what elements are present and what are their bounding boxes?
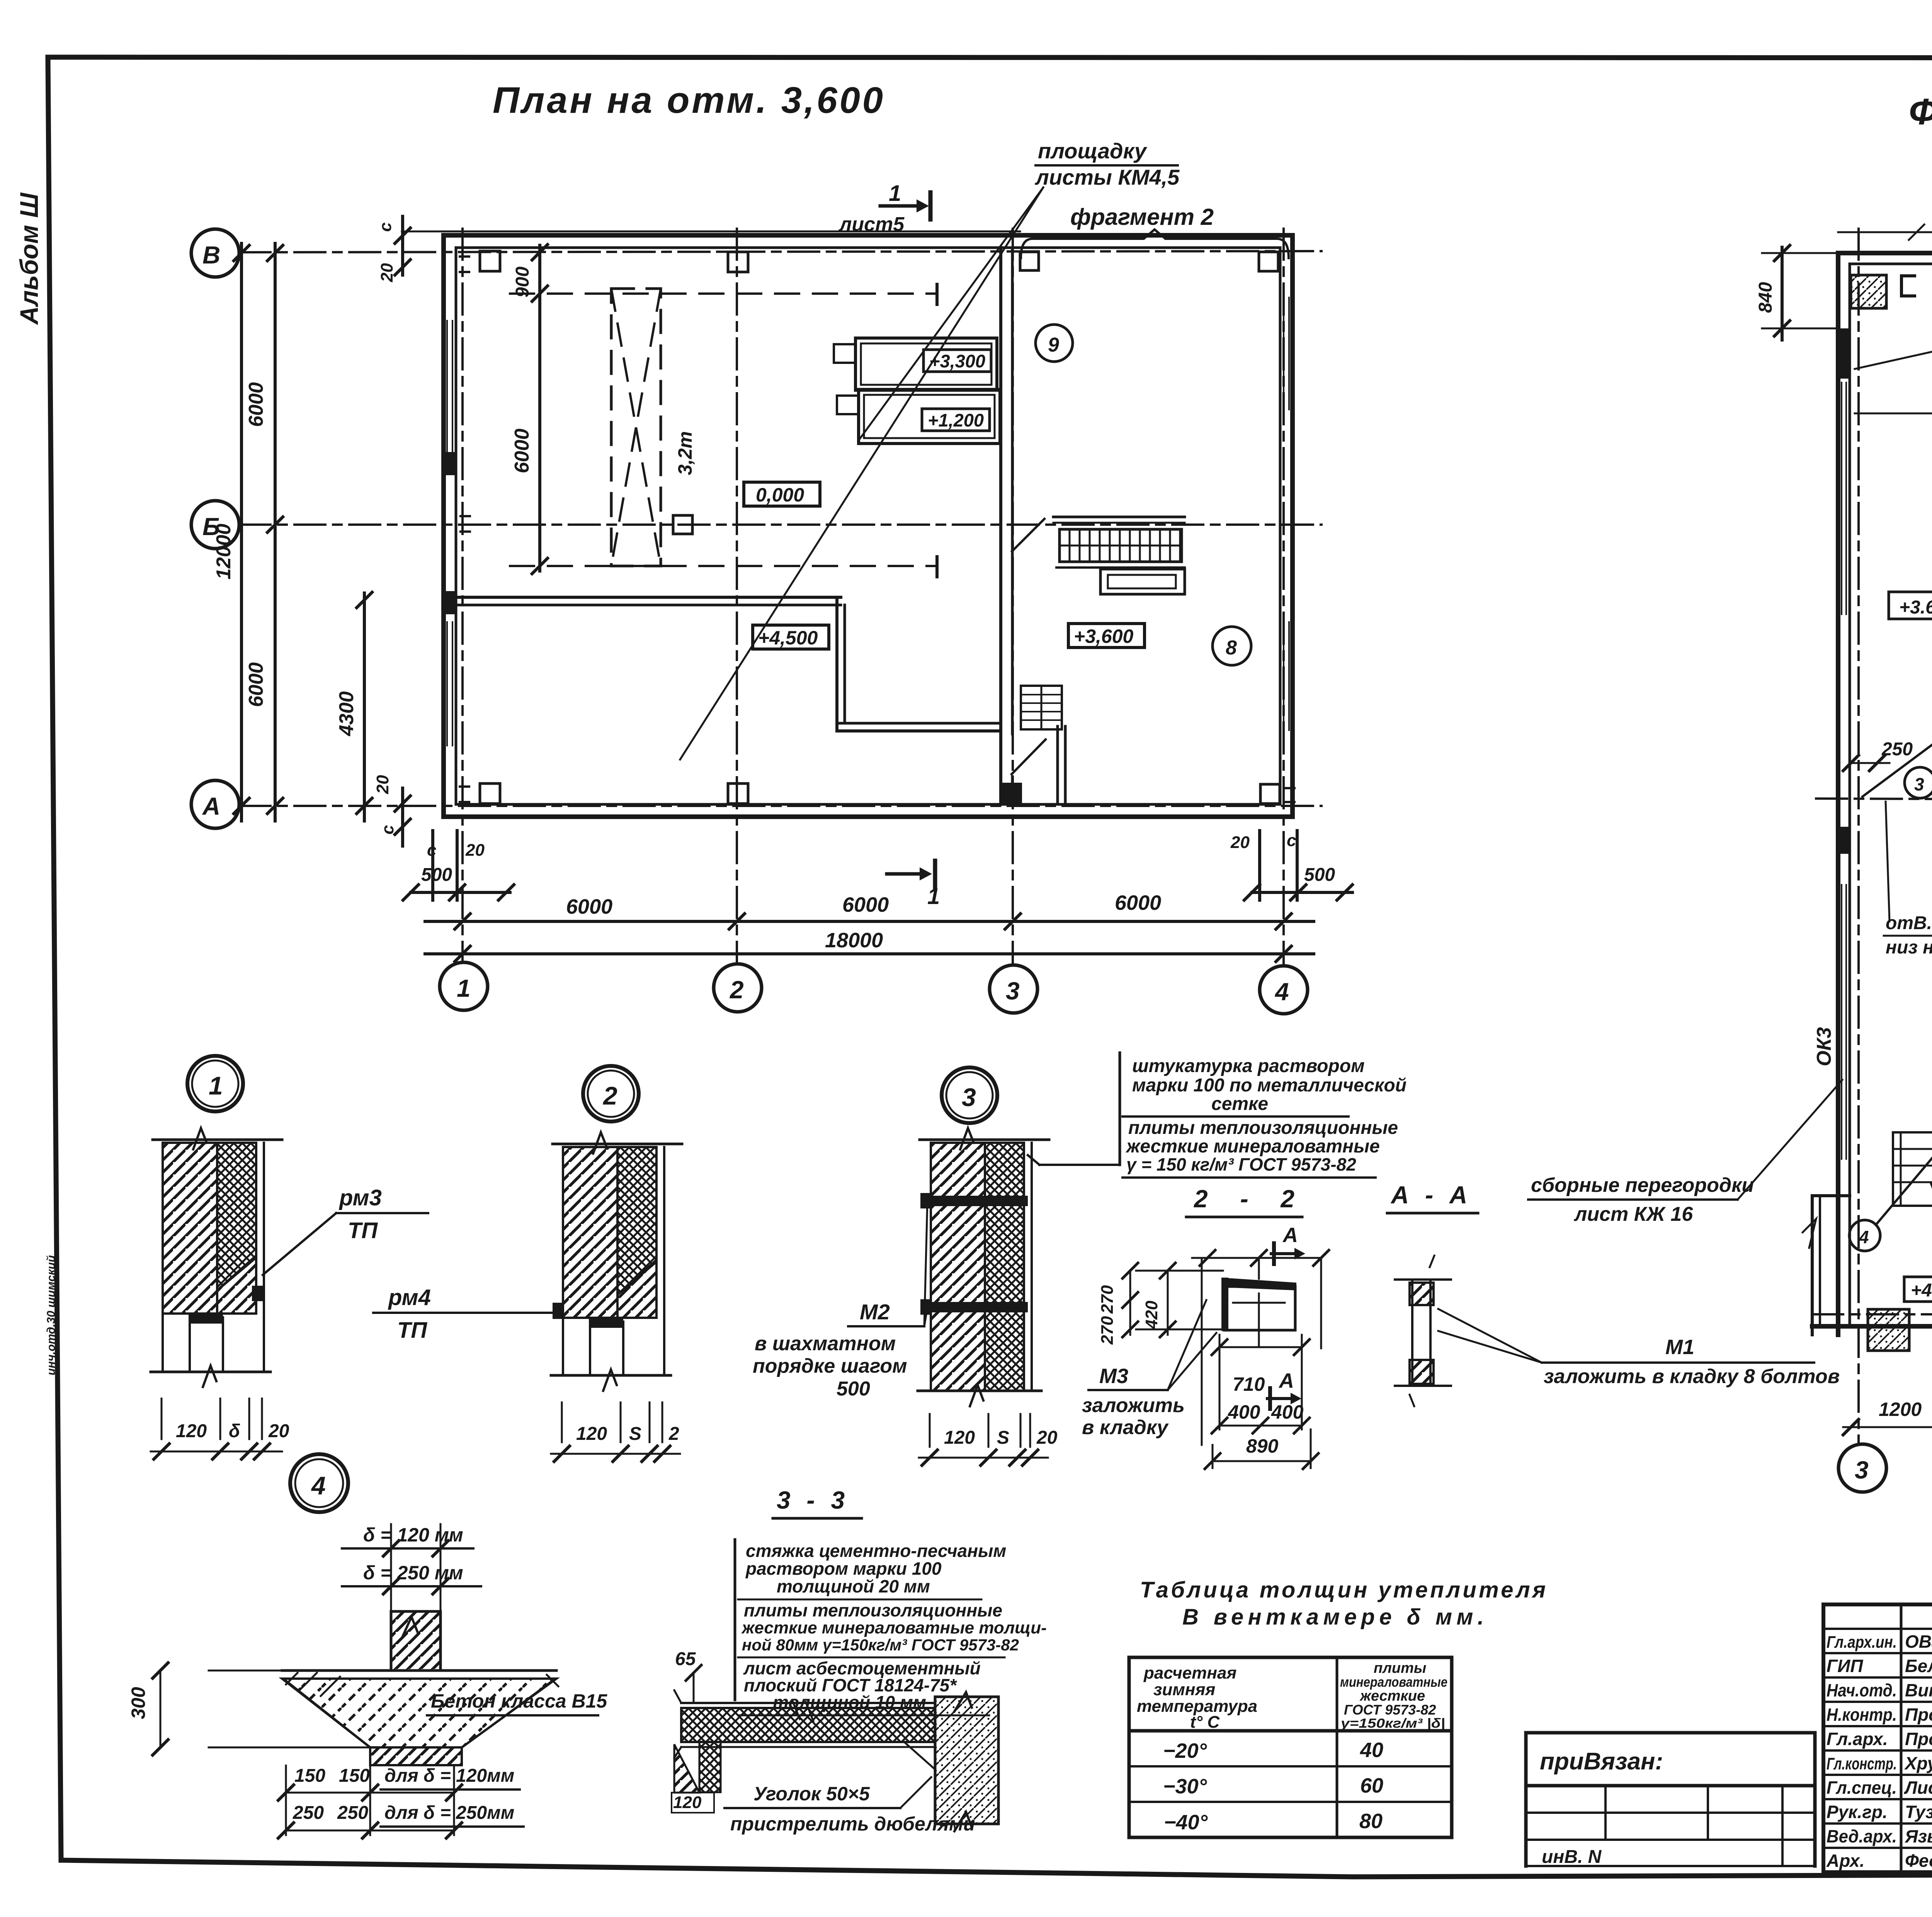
svg-text:80: 80 (1359, 1810, 1383, 1833)
svg-text:20: 20 (373, 775, 392, 794)
svg-text:2: 2 (602, 1081, 617, 1110)
svg-text:расчетная: расчетная (1143, 1664, 1236, 1682)
door swing at stair (1012, 519, 1044, 551)
svg-text:Н.контр.: Н.контр. (1827, 1705, 1897, 1725)
svg-text:20: 20 (1230, 833, 1250, 852)
svg-text:150: 150 (339, 1766, 370, 1786)
svg-text:ной 80мм γ=150кг/м³ ГОСТ 9573-: ной 80мм γ=150кг/м³ ГОСТ 9573-82 (742, 1636, 1019, 1654)
svg-text:4: 4 (311, 1471, 326, 1500)
detail 3 wall section (918, 1128, 1058, 1465)
axis Bf horizontal (1816, 799, 1932, 801)
level box +3,600 (1068, 624, 1145, 647)
dim 250 (1843, 739, 1932, 797)
svg-text:ТузаноВ: ТузаноВ (1905, 1802, 1932, 1822)
axis 3f vertical (1857, 229, 1860, 1443)
bracket top-left (1901, 276, 1915, 296)
interior wall y1553 (456, 596, 841, 599)
svg-text:150: 150 (294, 1766, 325, 1786)
svg-text:γ = 150 кг/м³ ГОСТ 9573-82: γ = 150 кг/м³ ГОСТ 9573-82 (1126, 1154, 1356, 1174)
svg-text:6000: 6000 (842, 893, 889, 916)
svg-text:приВязан:: приВязан: (1540, 1748, 1663, 1775)
column mark Bb left wall (461, 516, 470, 532)
grid circle 3 (990, 965, 1037, 1013)
personnel table (1823, 1604, 1932, 1872)
section mark 1 top (838, 181, 930, 236)
top dim line (1838, 231, 1932, 233)
level box +4,500 (753, 625, 829, 649)
svg-text:Белоус: Белоус (1905, 1656, 1932, 1676)
node circle 3 (1905, 767, 1932, 798)
detail 2 wall section (551, 1132, 682, 1462)
svg-text:18000: 18000 (825, 929, 883, 952)
svg-text:М3: М3 (1099, 1365, 1128, 1388)
svg-text:+3.600: +3.600 (1899, 597, 1932, 618)
svg-text:20: 20 (268, 1421, 289, 1441)
svg-text:1: 1 (927, 884, 940, 909)
M3 label (1082, 1300, 1216, 1439)
svg-text:S: S (629, 1424, 641, 1444)
svg-text:γ=150кг/м³ |δ|: γ=150кг/м³ |δ| (1341, 1716, 1445, 1731)
svg-text:3: 3 (1006, 977, 1020, 1005)
svg-text:1: 1 (889, 181, 901, 206)
level box 0,000 (744, 482, 820, 506)
detail 1 wall section (151, 1128, 289, 1459)
svg-text:с: с (1287, 831, 1296, 850)
sborniye peregorodki label (1528, 1080, 1842, 1225)
svg-text:ПрошлякоВ: ПрошлякоВ (1905, 1705, 1932, 1725)
svg-text:Фрагмент 2: Фрагмент 2 (1909, 91, 1932, 133)
node circle det3 (942, 1067, 997, 1123)
column marks bottom row (460, 787, 469, 802)
svg-text:Таблица толщин утеплителя: Таблица толщин утеплителя (1140, 1577, 1546, 1603)
axis 1 vertical (461, 229, 464, 962)
svg-text:6000: 6000 (245, 662, 267, 707)
svg-text:жесткие минераловатные толщи-: жесткие минераловатные толщи- (741, 1618, 1047, 1637)
svg-text:890: 890 (1246, 1435, 1279, 1457)
svg-text:9: 9 (1048, 334, 1059, 356)
svg-text:3: 3 (1855, 1456, 1869, 1484)
svg-text:А - А: А - А (1390, 1181, 1472, 1209)
otv350 upper text (1884, 802, 1932, 958)
svg-text:40: 40 (1360, 1739, 1383, 1762)
svg-text:Язычьян: Язычьян (1905, 1826, 1932, 1846)
svg-text:12000: 12000 (213, 523, 235, 580)
grid circle 2 (714, 964, 762, 1012)
svg-text:ПрошлякоВ: ПрошлякоВ (1905, 1729, 1932, 1749)
svg-text:3 - 3: 3 - 3 (777, 1486, 849, 1514)
room circle 9 (1036, 325, 1073, 362)
svg-text:4: 4 (1859, 1227, 1869, 1247)
corner column top-left (1851, 275, 1886, 308)
svg-text:2 - 2: 2 - 2 (1194, 1185, 1294, 1213)
svg-text:плиты теплоизоляционные: плиты теплоизоляционные (1128, 1118, 1398, 1138)
svg-text:500: 500 (421, 865, 452, 885)
svg-text:стяжка цементно-песчаным: стяжка цементно-песчаным (746, 1541, 1006, 1561)
svg-text:0,000: 0,000 (756, 484, 804, 506)
bottom-left room walls (1803, 1132, 1932, 1335)
svg-text:Гл.арх.: Гл.арх. (1827, 1729, 1888, 1749)
svg-text:Винклер: Винклер (1905, 1680, 1932, 1700)
rm4 label (373, 1285, 555, 1343)
section A-A title (1387, 1181, 1478, 1213)
small dims top-left c/20 (376, 216, 410, 282)
svg-text:−30°: −30° (1163, 1775, 1207, 1798)
svg-text:сборные перегородки: сборные перегородки (1531, 1174, 1754, 1196)
svg-text:20: 20 (465, 841, 485, 860)
svg-text:6000: 6000 (1115, 891, 1161, 914)
svg-text:отВ.350×350 0В: отВ.350×350 0В (1886, 913, 1932, 933)
interior wall x2176 (835, 597, 838, 731)
privyazan box (1526, 1733, 1815, 1867)
svg-text:для δ = 120мм: для δ = 120мм (384, 1766, 514, 1786)
svg-text:низ на отм.6.650: низ на отм.6.650 (1886, 937, 1932, 958)
svg-text:−20°: −20° (1163, 1739, 1207, 1762)
svg-text:ГИП: ГИП (1827, 1656, 1863, 1676)
dim 900/6000 inner (511, 245, 548, 574)
axis 4 vertical (1282, 229, 1285, 966)
node circle det1 (187, 1056, 243, 1111)
section A-A drawing (1395, 1256, 1451, 1406)
svg-text:фрагмент 2: фрагмент 2 (1070, 204, 1214, 230)
svg-text:6000: 6000 (245, 382, 267, 427)
svg-text:65: 65 (675, 1649, 696, 1669)
svg-text:В: В (202, 241, 220, 269)
svg-text:Гл.спец.: Гл.спец. (1827, 1778, 1897, 1798)
shtukaturka note block (1028, 1053, 1406, 1178)
thin line above top wall (402, 231, 1020, 233)
svg-text:пристрелить дюбелями: пристрелить дюбелями (730, 1813, 975, 1835)
svg-text:А: А (1278, 1369, 1294, 1392)
svg-text:М2: М2 (860, 1300, 890, 1324)
svg-text:60: 60 (1360, 1774, 1383, 1797)
corner column bottom-left room (1868, 1309, 1909, 1351)
svg-text:План на отм. 3,600: План на отм. 3,600 (493, 80, 883, 121)
svg-text:с: с (376, 223, 395, 232)
level box +1,200 (922, 409, 990, 431)
axis Bb horizontal (240, 523, 1321, 526)
dashed runway lines (510, 292, 937, 295)
svg-text:+1,200: +1,200 (928, 410, 984, 430)
svg-text:в шахматном: в шахматном (755, 1332, 896, 1355)
dim 4300 (335, 592, 372, 821)
svg-text:сетке: сетке (1211, 1094, 1268, 1114)
dim line 6000/6000 left (245, 243, 283, 821)
insulation table (1129, 1657, 1452, 1837)
M1 label (1438, 1309, 1840, 1388)
svg-text:250: 250 (293, 1803, 324, 1823)
svg-text:3: 3 (962, 1083, 976, 1111)
svg-text:Гл.констр.: Гл.констр. (1827, 1754, 1897, 1773)
svg-text:120: 120 (673, 1793, 702, 1812)
svg-text:1: 1 (209, 1071, 223, 1100)
svg-text:1: 1 (457, 974, 471, 1002)
svg-text:6000: 6000 (511, 428, 533, 473)
svg-text:t° С: t° С (1190, 1713, 1220, 1732)
axis Af horizontal (1812, 1313, 1932, 1315)
svg-text:6000: 6000 (566, 895, 612, 918)
svg-text:+4,500: +4,500 (1911, 1280, 1932, 1301)
svg-text:Альбом Ш: Альбом Ш (15, 192, 43, 325)
outer wall (building perimeter) (444, 235, 1293, 817)
styazhka note block (735, 1540, 1047, 1715)
svg-text:ОК3: ОК3 (1813, 1027, 1835, 1066)
svg-text:лист КЖ 16: лист КЖ 16 (1573, 1203, 1693, 1225)
svg-text:ТП: ТП (348, 1218, 378, 1243)
svg-text:270: 270 (1098, 1285, 1117, 1314)
grid circle 4 (1260, 966, 1308, 1014)
svg-text:20: 20 (378, 263, 396, 282)
svg-text:120: 120 (576, 1424, 607, 1444)
dim 840 (1755, 245, 1839, 340)
bottom dim chain 6000x3 (425, 891, 1314, 929)
dim 1200 (1843, 1335, 1932, 1435)
level box +3.600 fragment (1889, 592, 1932, 619)
axis 2 vertical (736, 229, 738, 964)
svg-text:3: 3 (1914, 774, 1924, 794)
svg-text:1200: 1200 (1879, 1399, 1922, 1420)
axis 3 vertical (1012, 229, 1014, 965)
svg-text:710: 710 (1233, 1373, 1265, 1395)
svg-text:400: 400 (1228, 1401, 1260, 1423)
node circle 4 (1849, 1220, 1880, 1251)
stair main railing (1053, 517, 1185, 594)
leader ploschadku (680, 139, 1180, 760)
svg-text:зимняя: зимняя (1153, 1680, 1215, 1699)
svg-text:площадку: площадку (1038, 139, 1148, 163)
svg-text:Рук.гр.: Рук.гр. (1827, 1802, 1888, 1822)
svg-text:порядке шагом: порядке шагом (753, 1355, 907, 1377)
left wall (1836, 253, 1840, 1335)
svg-text:В венткамере δ мм.: В венткамере δ мм. (1182, 1604, 1484, 1630)
level box +3,300 (923, 350, 991, 372)
svg-text:марки 100 по металлической: марки 100 по металлической (1132, 1075, 1406, 1096)
svg-text:раствором марки 100: раствором марки 100 (745, 1558, 942, 1579)
svg-text:500: 500 (1304, 865, 1335, 885)
grid circle B (191, 229, 239, 277)
column marks top row (460, 257, 469, 272)
platform +1.200 (859, 389, 1000, 444)
svg-text:250: 250 (1881, 739, 1913, 760)
grid circle A (191, 780, 239, 828)
detail 4 foundation (128, 1524, 607, 1838)
svg-text:250: 250 (337, 1803, 368, 1823)
svg-text:+4,500: +4,500 (758, 627, 818, 649)
svg-text:минераловатные: минераловатные (1340, 1674, 1447, 1690)
top wall (1838, 251, 1932, 255)
svg-text:Хрупало: Хрупало (1904, 1753, 1932, 1773)
dashed hoist rect 3,2t (611, 289, 661, 566)
svg-text:Бетон класса В15: Бетон класса В15 (431, 1690, 607, 1712)
svg-text:Федулина: Федулина (1905, 1851, 1932, 1871)
axis A horizontal (240, 805, 1321, 807)
circle 3 fragment bottom (1838, 1444, 1886, 1492)
svg-text:+3,600: +3,600 (1074, 625, 1134, 647)
svg-text:Лисичкин: Лисичкин (1904, 1778, 1932, 1798)
svg-text:120: 120 (944, 1428, 975, 1448)
section mark 1 bottom (887, 861, 940, 909)
insulation table title (1140, 1577, 1546, 1630)
section 3-3 title (773, 1486, 862, 1518)
svg-text:рм4: рм4 (388, 1285, 431, 1310)
bottom dim 18000 (425, 929, 1314, 962)
svg-text:300: 300 (128, 1687, 149, 1719)
svg-text:840: 840 (1755, 282, 1776, 313)
svg-text:лист5: лист5 (838, 213, 905, 236)
svg-text:Арх.: Арх. (1826, 1851, 1865, 1871)
svg-text:листы КМ4,5: листы КМ4,5 (1034, 165, 1180, 189)
svg-text:рм3: рм3 (338, 1185, 382, 1210)
fragment2 label + bracket (1021, 204, 1289, 258)
svg-text:инч.отд.30 шимский: инч.отд.30 шимский (45, 1255, 58, 1375)
svg-text:Вед.арх.: Вед.арх. (1827, 1826, 1897, 1846)
section 2-2 title (1186, 1185, 1302, 1217)
stair KM4 (1893, 1132, 1932, 1206)
svg-text:S: S (997, 1428, 1009, 1448)
interior wall y1880 (837, 722, 1001, 725)
svg-text:270: 270 (1098, 1316, 1117, 1345)
grid circle Bb (191, 501, 239, 549)
section 2-2 drawing (1098, 1224, 1329, 1469)
grid circle 1 (440, 962, 488, 1010)
interior wall axis3 (999, 248, 1002, 804)
dim line 12000 left (213, 243, 249, 821)
svg-text:заложить: заложить (1082, 1394, 1185, 1417)
svg-text:в кладку: в кладку (1082, 1416, 1169, 1439)
door swing lower (1012, 739, 1046, 774)
svg-text:А: А (202, 792, 220, 820)
svg-text:толщиной 20 мм: толщиной 20 мм (777, 1576, 930, 1596)
svg-text:для δ = 250мм: для δ = 250мм (384, 1803, 514, 1823)
svg-text:М1: М1 (1665, 1336, 1694, 1359)
svg-text:δ: δ (229, 1421, 240, 1441)
svg-text:2: 2 (730, 976, 744, 1004)
svg-text:штукатурка раствором: штукатурка раствором (1132, 1056, 1365, 1076)
window right wall (1283, 297, 1284, 410)
node circle det4 (290, 1454, 348, 1512)
svg-text:ОВанесян: ОВанесян (1905, 1631, 1932, 1652)
rm3 label (263, 1185, 428, 1275)
svg-text:400: 400 (1271, 1401, 1304, 1423)
svg-text:Гл.арх.ин.: Гл.арх.ин. (1827, 1633, 1897, 1652)
node circle det2 (583, 1066, 639, 1122)
svg-text:4: 4 (1274, 978, 1289, 1006)
svg-text:3,2т: 3,2т (674, 431, 696, 475)
svg-text:Уголок 50×5: Уголок 50×5 (753, 1783, 870, 1805)
svg-text:Нач.отд.: Нач.отд. (1827, 1680, 1897, 1700)
svg-text:8: 8 (1226, 637, 1237, 659)
level box +4,500 fragment (1904, 1277, 1932, 1302)
section 3-3 drawing (672, 1649, 998, 1835)
svg-text:4300: 4300 (335, 691, 358, 736)
svg-text:заложить в кладку 8 болтов: заложить в кладку 8 болтов (1544, 1365, 1840, 1388)
svg-text:20: 20 (1036, 1428, 1058, 1448)
svg-text:500: 500 (837, 1378, 870, 1400)
svg-text:инВ. N: инВ. N (1542, 1847, 1602, 1867)
stair small lower (1021, 686, 1062, 729)
svg-text:ТП: ТП (397, 1318, 427, 1343)
axis B horizontal (240, 251, 1321, 252)
svg-text:2: 2 (668, 1424, 679, 1444)
platform +3.300 (855, 338, 997, 390)
small dims bottom-right 20/c/500 (1230, 831, 1352, 900)
ov texts left of fragment (1855, 318, 1932, 585)
svg-text:А: А (1282, 1224, 1298, 1247)
svg-text:жесткие минераловатные: жесткие минераловатные (1125, 1136, 1380, 1157)
room circle 8 (1213, 627, 1251, 665)
svg-text:−40°: −40° (1164, 1811, 1208, 1834)
window left wall (446, 321, 448, 452)
small dims bottom-left 20/c/500 (373, 775, 514, 900)
svg-text:плиты теплоизоляционные: плиты теплоизоляционные (744, 1600, 1002, 1620)
svg-text:120: 120 (176, 1421, 207, 1441)
interior wall x2745 (1056, 726, 1059, 804)
svg-text:420: 420 (1142, 1300, 1161, 1329)
m2 label (753, 1202, 927, 1400)
svg-text:ГОСТ 9573-82: ГОСТ 9573-82 (1344, 1702, 1436, 1718)
